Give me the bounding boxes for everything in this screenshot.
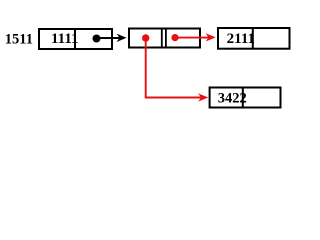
node N4 cell divider: [242, 87, 244, 109]
node N2 next pointer dot (red): [171, 34, 178, 41]
node N2 box: [129, 29, 200, 48]
node N2 cell divider (double line, left): [161, 28, 163, 49]
node N4 box: [210, 88, 281, 108]
node N1 pointer dot: [93, 35, 101, 43]
node N1 cell divider: [74, 28, 76, 50]
wire: red pointer line N2 to N3: [175, 37, 209, 39]
node N3 box: [218, 28, 290, 49]
node N2 cell divider (double line, right): [165, 28, 167, 49]
svg-text:1111: 1111: [51, 31, 79, 47]
node N3 cell divider: [252, 27, 254, 50]
arrowhead: red pointer into N3: [207, 34, 214, 40]
wire: red elbow vertical from N2 data dot: [145, 38, 147, 98]
wire: black pointer line N1 to N2: [97, 37, 120, 39]
node N2 data pointer dot (red): [142, 34, 149, 41]
node N1 box: [39, 29, 112, 49]
svg-text:1511: 1511: [5, 32, 33, 48]
svg-text:2111: 2111: [227, 31, 255, 47]
svg-text:3422: 3422: [218, 91, 247, 107]
arrowhead: black pointer into N2: [118, 35, 125, 41]
arrowhead: red pointer into N4: [200, 95, 207, 101]
wire: red elbow horizontal to N4: [145, 97, 201, 99]
